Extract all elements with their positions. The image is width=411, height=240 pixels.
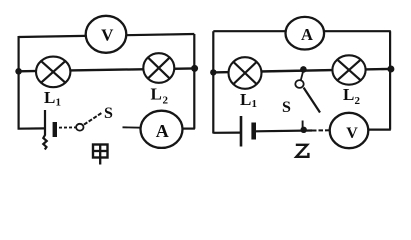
lamp L2 cross stroke 1 <box>148 58 170 79</box>
wire: dashed wire battery to switch pivot <box>59 126 76 128</box>
label jia (Chinese character) <box>93 145 108 165</box>
label yi (Chinese character) <box>296 145 309 157</box>
wire: battery to voltmeter (through switch bottom contact) <box>256 129 312 132</box>
node: right middle junction (right circuit) <box>387 66 394 73</box>
switch S1 blade (open) <box>84 113 102 125</box>
wire: switch to ammeter <box>123 126 142 128</box>
lamp L1 cross stroke 2 <box>41 61 65 82</box>
wire: ammeter to right wire <box>183 128 195 130</box>
lamp L1 right cross stroke 1 <box>234 62 257 84</box>
svg-text:L: L <box>343 85 354 104</box>
svg-text:V: V <box>346 125 358 142</box>
switch S1 pivot circle <box>76 124 83 131</box>
switch S2 fixed contact stub <box>302 121 304 131</box>
lamp L2 cross stroke 2 <box>148 58 170 79</box>
svg-text:S: S <box>104 105 113 122</box>
svg-text:L: L <box>44 88 55 107</box>
battery B2 short plate <box>251 123 256 140</box>
lamp L1 (left circuit) body <box>36 57 70 88</box>
svg-text:L: L <box>240 90 251 109</box>
lamp L1 cross stroke 1 <box>41 61 65 82</box>
svg-text:2: 2 <box>355 95 361 107</box>
lamp L1 right cross stroke 2 <box>234 62 257 84</box>
wire: left vertical wire <box>212 31 214 133</box>
battery B1 long plate <box>43 110 46 150</box>
wire: top wire of left circuit <box>19 34 195 37</box>
wire: right vertical wire <box>193 34 195 129</box>
svg-text:L: L <box>151 85 162 104</box>
svg-text:1: 1 <box>56 97 62 109</box>
wire: voltmeter to right wire <box>368 129 390 131</box>
wire: top wire of right circuit <box>213 30 390 32</box>
svg-text:1: 1 <box>252 98 258 110</box>
ammeter A1 body <box>141 111 183 148</box>
node: middle junction at switch top <box>300 66 307 73</box>
voltmeter V1 body <box>86 16 127 53</box>
wire: left vertical wire <box>18 36 20 130</box>
battery B1 short plate <box>53 122 57 137</box>
node: left middle junction <box>15 68 22 75</box>
svg-text:V: V <box>101 26 114 45</box>
node: bottom contact of switch <box>301 127 307 133</box>
svg-text:A: A <box>301 25 313 44</box>
battery B2 long plate <box>240 116 243 147</box>
lamp L2 right cross stroke 1 <box>338 60 361 80</box>
wire: middle wire (through lamps) <box>19 68 195 71</box>
lamp L1 (right circuit) body <box>229 57 262 89</box>
svg-text:2: 2 <box>163 95 169 107</box>
wire: right vertical wire <box>389 31 391 129</box>
switch S2 blade (open) <box>304 88 320 113</box>
node: left middle junction (right circuit) <box>210 69 216 75</box>
wire: middle wire (through lamps) <box>213 69 391 73</box>
lamp L2 right cross stroke 2 <box>338 60 361 80</box>
wire: bottom-left wire to battery <box>213 132 241 134</box>
lamp L2 (left circuit) body <box>143 53 174 83</box>
svg-text:S: S <box>282 99 291 116</box>
wire: bottom-left wire to battery <box>18 127 45 130</box>
voltmeter V2 body <box>330 113 369 148</box>
switch S2 pivot circle <box>295 80 303 88</box>
svg-text:A: A <box>156 121 169 141</box>
switch S2 stub from middle node <box>301 71 303 80</box>
ammeter A2 body <box>286 17 325 50</box>
node: right middle junction <box>191 65 198 72</box>
wire: dashed continuation to voltmeter <box>312 129 331 131</box>
lamp L2 (right circuit) body <box>332 55 365 84</box>
